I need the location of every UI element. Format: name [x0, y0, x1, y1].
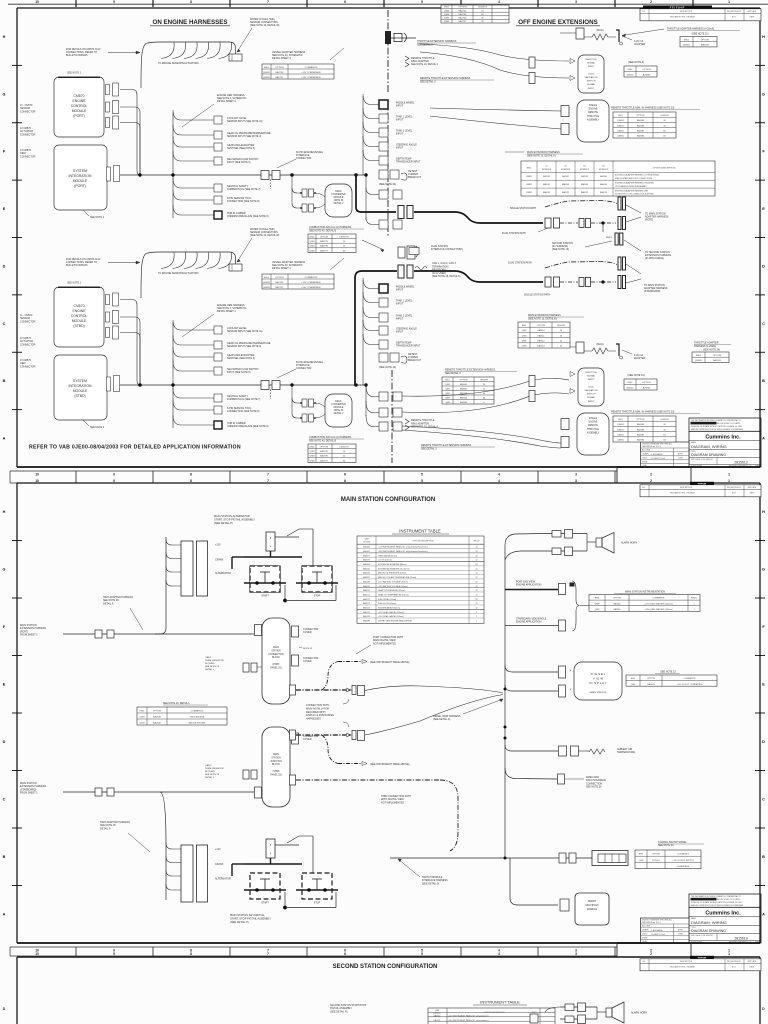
svg-text:SIZE CAGE CODE DWG NO: SIZE CAGE CODE DWG NO — [691, 458, 714, 461]
svg-text:QSM: QSM — [445, 393, 450, 395]
svg-text:MODULE: MODULE — [73, 389, 88, 393]
svg-text:INPUT: INPUT — [588, 401, 595, 403]
svg-text:(PORT): (PORT) — [645, 219, 653, 222]
svg-text:QSM: QSM — [435, 1010, 440, 1012]
svg-text:INTEGRATION: INTEGRATION — [69, 174, 92, 178]
svg-text:A: A — [762, 437, 765, 441]
svg-text:EA2073: EA2073 — [363, 602, 370, 605]
svg-text:H: H — [762, 510, 765, 514]
svg-text:SENSOR INPUT (SEE NOTE 41): SENSOR INPUT (SEE NOTE 41) — [227, 330, 263, 333]
svg-text:QSM11: QSM11 — [526, 192, 532, 194]
svg-text:QSM11: QSM11 — [526, 176, 532, 178]
svg-text:LENGTH: LENGTH — [660, 115, 669, 117]
svg-text:INSTRUMENT TABLE: INSTRUMENT TABLE — [399, 529, 441, 534]
svg-text:EA2744: EA2744 — [459, 9, 468, 12]
svg-text:ENG: ENG — [140, 711, 145, 713]
svg-text:SINGLE STATION PATH: SINGLE STATION PATH — [510, 207, 536, 210]
svg-text:LENGTH: LENGTH — [478, 7, 487, 9]
svg-text:STATION START AND STOP CONNECT: STATION START AND STOP CONNECTIONS — [615, 177, 653, 180]
svg-text:NO.: NO. — [642, 11, 646, 13]
svg-text:MAIN: MAIN — [273, 646, 279, 649]
svg-text:QSM11: QSM11 — [695, 360, 703, 362]
svg-text:UNLESS OTHERWISE SPECIFIED ALL: UNLESS OTHERWISE SPECIFIED ALL — [642, 919, 672, 922]
svg-text:DIAGRAM DRAWING: DIAGRAM DRAWING — [691, 453, 726, 457]
svg-text:QSM: QSM — [522, 341, 527, 343]
svg-text:(SEE NOTE 13, DETAIL A): (SEE NOTE 13, DETAIL A) — [527, 155, 556, 158]
svg-text:EA2066: EA2066 — [363, 572, 370, 575]
svg-text:SEE NOTE 40, DETAIL B: SEE NOTE 40, DETAIL B — [309, 230, 337, 233]
svg-text:(SEE DETAIL A): (SEE DETAIL A) — [433, 718, 450, 721]
svg-text:A: A — [762, 912, 765, 916]
svg-text:MODULE: MODULE — [334, 407, 344, 409]
svg-text:+24V COMPATIBLE: +24V COMPATIBLE — [301, 286, 321, 289]
svg-text:SIGNAL: SIGNAL — [587, 396, 596, 399]
svg-text:QSM: QSM — [445, 384, 450, 386]
svg-text:THE INFORMATION IN THIS DOCUME: THE INFORMATION IN THIS DOCUMENT IS CONF… — [691, 419, 741, 422]
svg-text:SEE NOTE 2: SEE NOTE 2 — [90, 426, 105, 429]
svg-text:(PORT: (PORT — [272, 664, 280, 666]
svg-text:+24V COMPATIBLE: +24V COMPATIBLE — [301, 76, 321, 79]
svg-text:QSM: QSM — [522, 335, 527, 337]
svg-text:QSM: QSM — [310, 460, 315, 462]
svg-text:EA2747: EA2747 — [459, 20, 468, 23]
svg-text:EA2584: EA2584 — [600, 175, 607, 178]
svg-text:ENG: ENG — [527, 168, 532, 170]
svg-text:ASSEMBLY: ASSEMBLY — [587, 431, 600, 434]
svg-text:SEE DETAIL 3: SEE DETAIL 3 — [445, 372, 461, 375]
svg-text:BULLETIN 3666445: BULLETIN 3666445 — [66, 54, 88, 57]
svg-text:B: B — [3, 379, 6, 383]
svg-text:(SEE DETAIL P): (SEE DETAIL P) — [230, 920, 249, 924]
svg-text:6: 6 — [344, 472, 346, 476]
svg-text:SINGLE STATION PATH: SINGLE STATION PATH — [524, 294, 550, 297]
svg-text:(SEE NOTE 40, DETAIL W): (SEE NOTE 40, DETAIL W) — [250, 234, 280, 237]
svg-text:3: 3 — [575, 0, 577, 4]
svg-text:REMOTE THROTTLE ASM. W/ HARNES: REMOTE THROTTLE ASM. W/ HARNESS (SEE NOT… — [611, 107, 675, 110]
svg-text:NOTE 34: NOTE 34 — [334, 200, 344, 202]
svg-text:OPTION: OPTION — [537, 325, 545, 327]
svg-text:EA2685: EA2685 — [637, 119, 645, 122]
svg-text:CONNECTION: CONNECTION — [268, 654, 284, 656]
svg-text:QSM: QSM — [639, 860, 644, 862]
svg-text:OPTION: OPTION — [320, 236, 329, 238]
svg-text:NO RETURN TO ON CONNECTION SUP: NO RETURN TO ON CONNECTION SUPPLIED — [615, 194, 654, 196]
svg-text:SEE NOTE 20, DETAIL L: SEE NOTE 20, DETAIL L — [163, 702, 191, 705]
svg-text:DESCRIPTION: DESCRIPTION — [680, 11, 693, 13]
svg-text:DETAIL R: DETAIL R — [103, 602, 114, 605]
svg-text:EA2078: EA2078 — [363, 559, 370, 562]
svg-text:EA2746: EA2746 — [459, 17, 468, 20]
svg-text:OPTION: OPTION — [320, 446, 329, 448]
svg-text:SINGLE: SINGLE — [589, 105, 598, 107]
svg-text:9: 9 — [113, 0, 115, 4]
svg-text:EAB154: EAB154 — [600, 191, 607, 194]
svg-text:ENGINE APPLICATION: ENGINE APPLICATION — [516, 584, 542, 587]
svg-text:DIGITAL VIEW ENGINE DATA DISPL: DIGITAL VIEW ENGINE DATA DISPLAY — [378, 619, 413, 622]
svg-text:QSM: QSM — [522, 346, 527, 348]
svg-text:QSM11: QSM11 — [617, 120, 625, 122]
svg-text:ON ENGINE HARNESSES: ON ENGINE HARNESSES — [153, 19, 228, 26]
svg-text:INPUT: INPUT — [396, 119, 404, 122]
svg-text:EA2581: EA2581 — [543, 175, 550, 178]
svg-text:VALIDATION: VALIDATION — [585, 76, 598, 79]
svg-text:SWITCH: SWITCH — [587, 81, 596, 83]
svg-text:QSM: QSM — [310, 451, 315, 453]
svg-text:OPTION: OPTION — [637, 419, 645, 421]
svg-text:J. ROGERS: J. ROGERS — [651, 454, 663, 456]
svg-text:REFER TO VAB 0JE00-08/04/2003: REFER TO VAB 0JE00-08/04/2003 FOR DETAIL… — [29, 445, 241, 451]
svg-text:LENGTH: LENGTH — [660, 419, 669, 421]
svg-text:+12V BATTERY VOLTAGE (52mm): +12V BATTERY VOLTAGE (52mm) — [378, 580, 408, 583]
svg-text:NO.: NO. — [642, 961, 646, 963]
svg-text:QSM11: QSM11 — [617, 429, 625, 431]
svg-text:REMOTE: REMOTE — [588, 425, 598, 427]
svg-text:QSM11: QSM11 — [617, 435, 625, 437]
svg-text:ALTERNATOR: ALTERNATOR — [215, 878, 231, 881]
svg-text:EA2068: EA2068 — [363, 580, 370, 583]
svg-text:CONNECTOR: CONNECTOR — [20, 133, 36, 136]
svg-text:EC2001: EC2001 — [652, 860, 660, 862]
svg-text:MULTIPLEX: MULTIPLEX — [585, 904, 599, 907]
svg-text:HARNESSES: HARNESSES — [306, 718, 321, 721]
svg-text:APP DATE: APP DATE — [748, 486, 758, 489]
svg-text:SEE NOTE 26: SEE NOTE 26 — [586, 786, 602, 789]
svg-text:EA2736: EA2736 — [276, 71, 285, 74]
svg-text:EA2088: EA2088 — [363, 619, 370, 622]
svg-text:SMART: SMART — [588, 900, 597, 903]
svg-text:9: 9 — [113, 472, 115, 476]
svg-text:1: 1 — [728, 0, 730, 4]
svg-text:ECO: ECO — [732, 967, 736, 969]
svg-text:DETAIL SHEET 4: DETAIL SHEET 4 — [217, 100, 236, 103]
svg-text:QSM: QSM — [310, 241, 315, 243]
svg-text:SENSOR INPUT (SEE NOTE 4): SENSOR INPUT (SEE NOTE 4) — [227, 135, 261, 138]
svg-text:ENG: ENG — [310, 446, 315, 448]
svg-text:STATION: STATION — [271, 649, 281, 652]
svg-text:CM570: CM570 — [74, 304, 85, 308]
svg-text:ENG: ENG — [445, 379, 450, 381]
svg-text:OPTION: OPTION — [460, 379, 468, 381]
svg-text:2: 2 — [650, 0, 652, 4]
svg-text:PANEL 25): PANEL 25) — [270, 666, 281, 669]
svg-text:NOT IMPLEMENTED: NOT IMPLEMENTED — [373, 642, 396, 645]
svg-text:MAIN STATION KEYSWITCH,: MAIN STATION KEYSWITCH, — [230, 913, 265, 917]
svg-text:THROTTLE ADAPTER HARNESS (4 20: THROTTLE ADAPTER HARNESS (4 20mA) — [667, 28, 714, 31]
svg-text:ALARM HORN: ALARM HORN — [631, 1012, 647, 1015]
svg-text:(STBD): (STBD) — [74, 394, 85, 398]
svg-text:INPUT (SEE NOTE 6): INPUT (SEE NOTE 6) — [227, 371, 251, 374]
svg-text:(SEE DETAIL P): (SEE DETAIL P) — [330, 1010, 348, 1013]
svg-text:THROTTLE: THROTTLE — [587, 429, 600, 431]
svg-text:DATE: DATE — [678, 933, 683, 936]
svg-text:EA2684: EA2684 — [637, 135, 645, 138]
svg-text:SEE NOTE 1: SEE NOTE 1 — [67, 72, 82, 75]
svg-text:DETAIL 2: DETAIL 2 — [334, 202, 344, 205]
svg-text:APPD: APPD — [678, 929, 684, 932]
svg-text:QSM: QSM — [631, 684, 636, 686]
svg-text:(STBD): (STBD) — [73, 324, 84, 328]
svg-text:CONNECTOR: CONNECTOR — [296, 367, 312, 370]
svg-text:ECO: ECO — [732, 17, 736, 19]
svg-text:QSM: QSM — [310, 246, 315, 248]
svg-text:INPUT: INPUT — [396, 318, 404, 321]
svg-text:SIGNAL: SIGNAL — [587, 83, 596, 86]
svg-text:(STBD: (STBD — [273, 771, 280, 773]
svg-text:INPUT: INPUT — [396, 105, 404, 108]
svg-text:CRANK: CRANK — [215, 559, 224, 562]
svg-text:CHK'D: CHK'D — [642, 458, 648, 460]
svg-text:SINGLE ENGINE: SINGLE ENGINE — [188, 723, 206, 725]
svg-text:EA2076: EA2076 — [363, 615, 370, 618]
svg-text:ADAPTER: ADAPTER — [634, 43, 646, 46]
svg-text:2: 2 — [650, 952, 652, 956]
svg-text:EA2069: EA2069 — [363, 585, 370, 588]
svg-text:QSM11: QSM11 — [526, 184, 532, 186]
svg-text:EA2745: EA2745 — [459, 13, 468, 16]
svg-text:+12/+24 VOLT SWITCH: +12/+24 VOLT SWITCH — [672, 860, 694, 862]
svg-text:SYSTEM: SYSTEM — [73, 379, 87, 383]
svg-text:H: H — [762, 35, 765, 39]
svg-text:(SEE NOTE 11): (SEE NOTE 11) — [692, 33, 709, 36]
svg-text:START: START — [261, 595, 269, 598]
svg-text:INPUT: INPUT — [396, 133, 404, 136]
svg-text:A: A — [3, 437, 6, 441]
svg-text:OPTION: OPTION — [153, 711, 162, 713]
svg-text:SEE NOTE 23: SEE NOTE 23 — [660, 671, 676, 674]
svg-text:SYSTEM TACHOMETER (86mm): SYSTEM TACHOMETER (86mm) — [378, 563, 407, 566]
svg-text:EA2070: EA2070 — [363, 589, 370, 592]
svg-text:QSM11: QSM11 — [263, 77, 271, 79]
svg-text:EA2072: EA2072 — [363, 598, 370, 601]
svg-text:CAN 1: CAN 1 — [205, 656, 212, 659]
svg-text:EA2686: EA2686 — [637, 428, 645, 431]
svg-text:EA2644: EA2644 — [460, 396, 468, 399]
svg-text:(SEE NOTE 19): (SEE NOTE 19) — [552, 248, 569, 251]
svg-text:SYSTEM: SYSTEM — [73, 169, 87, 173]
svg-text:ALTERNATOR: ALTERNATOR — [215, 572, 231, 575]
svg-text:TWIN ENGINE: TWIN ENGINE — [190, 717, 205, 719]
svg-text:EA2612: EA2612 — [537, 340, 545, 343]
svg-text:9: 9 — [113, 952, 115, 956]
svg-text:DUAL STATION PATH: DUAL STATION PATH — [502, 232, 526, 235]
svg-text:QSM: QSM — [522, 330, 527, 332]
svg-text:ENG: ENG — [444, 7, 449, 9]
svg-text:QSM: QSM — [444, 21, 449, 23]
svg-text:7: 7 — [267, 472, 269, 476]
svg-text:DRAWN: DRAWN — [642, 929, 649, 932]
svg-text:CAN 2: CAN 2 — [205, 764, 212, 767]
svg-text:ENGINE: ENGINE — [589, 422, 598, 424]
svg-text:DECK: DECK — [335, 191, 342, 193]
svg-text:INTERFACE CONNECTIONS: INTERFACE CONNECTIONS — [431, 248, 463, 251]
svg-text:DIAGRAM, WIRING: DIAGRAM, WIRING — [691, 920, 727, 925]
svg-text:+24V QUAD GAUGE (110mm): +24V QUAD GAUGE (110mm) — [378, 615, 404, 618]
svg-text:QSM: QSM — [310, 456, 315, 458]
svg-text:HARNESS (4-20MA): HARNESS (4-20MA) — [694, 345, 716, 348]
svg-text:SEE NOTE 29: SEE NOTE 29 — [205, 666, 220, 668]
svg-text:8: 8 — [190, 0, 192, 4]
svg-text:A23905: A23905 — [643, 74, 651, 77]
svg-text:G: G — [3, 567, 6, 571]
svg-text:QSM: QSM — [140, 723, 145, 725]
svg-text:TO ENGINE SENSORS/ACTUATORS: TO ENGINE SENSORS/ACTUATORS — [158, 272, 199, 275]
svg-text:REQUESTED BY: REQUESTED BY — [727, 961, 742, 963]
svg-text:CRANK: CRANK — [215, 863, 224, 866]
svg-text:SEE DETAIL 3: SEE DETAIL 3 — [421, 448, 437, 451]
svg-text:DUAL STATION PATH: DUAL STATION PATH — [508, 262, 532, 265]
svg-text:ENG: ENG — [639, 854, 644, 856]
svg-text:QSM: QSM — [595, 603, 600, 605]
svg-text:ALL DIMS: ALL DIMS — [642, 925, 651, 928]
svg-text:+24V INSTRUMENT PANEL KIT w/(t: +24V INSTRUMENT PANEL KIT w/(tachometer/… — [378, 550, 428, 553]
svg-text:DIAGRAM, WIRING: DIAGRAM, WIRING — [691, 444, 727, 449]
svg-text:COMMENTS: COMMENTS — [191, 711, 204, 713]
svg-text:QSM11: QSM11 — [263, 287, 271, 289]
svg-text:4: 4 — [498, 952, 500, 956]
svg-text:DETAIL SHEET 4: DETAIL SHEET 4 — [272, 57, 291, 60]
svg-text:+12V QUAD GAUGE (110mm): +12V QUAD GAUGE (110mm) — [378, 611, 404, 614]
svg-text:EA2613: EA2613 — [537, 345, 545, 348]
svg-text:RELEASE NOTES - RELEASE: RELEASE NOTES - RELEASE — [670, 492, 696, 495]
svg-text:(SEE NOTE 44): (SEE NOTE 44) — [379, 183, 396, 186]
svg-text:START: START — [261, 902, 269, 905]
svg-text:CONVERTER: CONVERTER — [331, 404, 346, 406]
svg-text:IN WHOLE OR IN PART WITHOUT WR: IN WHOLE OR IN PART WITHOUT WRITTEN CONS… — [691, 901, 742, 904]
svg-text:BLOCK: BLOCK — [272, 657, 280, 659]
svg-text:OPTION: OPTION — [647, 678, 655, 680]
svg-text:CONNECTOR: CONNECTOR — [20, 110, 36, 113]
svg-text:INPUT (SEE NOTE 6): INPUT (SEE NOTE 6) — [227, 161, 251, 164]
svg-text:EA2077: EA2077 — [363, 554, 370, 557]
svg-text:CONNECTOR: CONNECTOR — [296, 157, 312, 160]
svg-text:(PORT): (PORT) — [73, 114, 85, 118]
svg-text:OPTION DESCRIPTION: OPTION DESCRIPTION — [653, 168, 676, 170]
svg-text:DETAIL L: DETAIL L — [205, 776, 215, 779]
svg-text:+12V INSTRUMENT PANEL KIT w/(t: +12V INSTRUMENT PANEL KIT w/(tachometer) — [448, 1015, 489, 1018]
svg-text:MAIN STATION CONFIGURATION: MAIN STATION CONFIGURATION — [341, 497, 435, 503]
svg-text:B: B — [762, 379, 765, 383]
svg-text:(SEE INSTRUMENT TABLE ABOVE): (SEE INSTRUMENT TABLE ABOVE) — [370, 763, 410, 766]
svg-text:IN WHOLE OR IN PART WITHOUT WR: IN WHOLE OR IN PART WITHOUT WRITTEN CONS… — [691, 425, 742, 428]
svg-text:EA2620: EA2620 — [363, 546, 370, 549]
svg-text:EA2641: EA2641 — [460, 383, 468, 386]
svg-text:OPTION: OPTION — [458, 7, 467, 9]
svg-text:FROM SHEET 1: FROM SHEET 1 — [20, 634, 38, 637]
svg-text:MODULE: MODULE — [72, 109, 87, 113]
svg-text:DIAGRAM DRAWING: DIAGRAM DRAWING — [691, 929, 726, 933]
svg-text:EA2975: EA2975 — [320, 450, 329, 453]
svg-text:LENGTH: LENGTH — [557, 325, 566, 327]
svg-text:EAB132: EAB132 — [562, 191, 569, 194]
svg-text:(IF APPLICABLE): (IF APPLICABLE) — [645, 257, 664, 260]
svg-text:UNLESS OTHERWISE SPECIFIED ALL: UNLESS OTHERWISE SPECIFIED ALL — [642, 443, 672, 446]
svg-text:6: 6 — [344, 952, 346, 956]
svg-text:TERM. RESISTOR: TERM. RESISTOR — [205, 660, 224, 662]
svg-text:4: 4 — [498, 472, 500, 476]
svg-text:E: E — [3, 207, 6, 211]
svg-text:(MAG): (MAG) — [596, 343, 603, 346]
svg-text:QSM: QSM — [445, 388, 450, 390]
svg-text:EA2865: EA2865 — [613, 608, 621, 611]
svg-text:EA2736: EA2736 — [276, 281, 285, 284]
svg-text:EA2684: EA2684 — [637, 439, 645, 442]
svg-text:APP DATE: APP DATE — [748, 10, 758, 13]
svg-text:A: A — [3, 912, 6, 916]
svg-text:THE INFORMATION IN THIS DOCUME: THE INFORMATION IN THIS DOCUMENT IS CONF… — [691, 895, 741, 898]
svg-text:DATE: DATE — [750, 966, 755, 969]
svg-text:NO.: NO. — [642, 487, 646, 489]
svg-text:EXTENSION ADAPTER HARNESS; REQ: EXTENSION ADAPTER HARNESS; REQUIRED — [615, 182, 655, 185]
svg-text:INPUT: INPUT — [396, 147, 404, 150]
svg-text:ENGR: ENGR — [642, 461, 648, 463]
svg-text:DETAIL SHEET 4: DETAIL SHEET 4 — [272, 267, 291, 270]
svg-text:BLOCK: BLOCK — [272, 764, 280, 766]
svg-text:W (150Ω): W (150Ω) — [205, 663, 215, 665]
svg-text:OPTION: OPTION — [275, 277, 284, 279]
svg-text:CONTROL: CONTROL — [71, 314, 88, 318]
svg-text:SYSTEM TACHOMETER (TC 85mm): SYSTEM TACHOMETER (TC 85mm) — [378, 567, 410, 570]
svg-text:C: C — [3, 797, 6, 801]
svg-text:QSM: QSM — [310, 250, 315, 252]
svg-text:7: 7 — [267, 0, 269, 4]
svg-text:DECK: DECK — [335, 401, 342, 403]
svg-text:V I E W: V I E W — [593, 677, 603, 681]
svg-text:DRAWN: DRAWN — [642, 453, 649, 456]
svg-text:EAB142: EAB142 — [543, 183, 550, 186]
svg-text:OPTION: OPTION — [701, 39, 710, 41]
svg-text:SEE NOTE 1: SEE NOTE 1 — [67, 282, 82, 285]
svg-text:OPTION: OPTION — [642, 382, 651, 384]
svg-text:6: 6 — [344, 0, 346, 4]
svg-text:SENTINEL (SEE NOTE 5): SENTINEL (SEE NOTE 5) — [227, 147, 255, 150]
svg-text:JUNCTION: JUNCTION — [270, 761, 282, 763]
svg-text:START, STOP PIGTAIL ASSEMBLY: START, STOP PIGTAIL ASSEMBLY — [214, 518, 255, 522]
svg-text:COVER: COVER — [303, 738, 312, 741]
svg-text:QSM11: QSM11 — [617, 125, 625, 127]
svg-text:EA2878: EA2878 — [647, 683, 655, 686]
svg-text:ENGINE: ENGINE — [73, 309, 87, 313]
svg-text:5: 5 — [421, 0, 423, 4]
svg-text:COMMENTS: COMMENTS — [653, 598, 665, 600]
svg-text:EXTENSION: EXTENSION — [542, 169, 552, 171]
svg-text:CM570: CM570 — [74, 94, 85, 98]
svg-text:ENG: ENG — [522, 325, 527, 327]
svg-text:ENG: ENG — [310, 236, 315, 238]
svg-text:(MAG): (MAG) — [596, 29, 603, 32]
svg-text:COLD: COLD — [588, 386, 594, 388]
svg-text:SEE NOTE 24: SEE NOTE 24 — [658, 844, 674, 847]
svg-text:+12V INSTRUMENT PANEL KIT w/(t: +12V INSTRUMENT PANEL KIT w/(tachometer/… — [378, 546, 428, 549]
svg-text:7: 7 — [267, 952, 269, 956]
svg-text:REQUESTED BY: REQUESTED BY — [727, 11, 742, 13]
svg-text:THROTTLE: THROTTLE — [585, 59, 597, 61]
svg-text:QSM11: QSM11 — [263, 282, 271, 284]
svg-text:EXTENSION: EXTENSION — [580, 169, 590, 171]
svg-text:QSM11: QSM11 — [617, 440, 625, 442]
svg-text:(SEE NOTE 44): (SEE NOTE 44) — [379, 366, 396, 369]
svg-text:CONNECTOR: CONNECTOR — [20, 343, 36, 346]
svg-text:QSM11: QSM11 — [263, 72, 271, 74]
svg-text:LENGTH: LENGTH — [480, 379, 489, 381]
svg-text:5: 5 — [421, 472, 423, 476]
svg-text:EA2074: EA2074 — [363, 606, 370, 609]
svg-text:COMMENTS: COMMENTS — [305, 277, 318, 279]
svg-text:CONNECTOR: CONNECTOR — [20, 155, 36, 158]
svg-text:(STARBOARD): (STARBOARD) — [644, 290, 660, 293]
svg-text:EA2075: EA2075 — [363, 611, 370, 614]
svg-text:+12V COMPATIBLE: +12V COMPATIBLE — [301, 71, 321, 74]
svg-text:QSM: QSM — [445, 402, 450, 404]
